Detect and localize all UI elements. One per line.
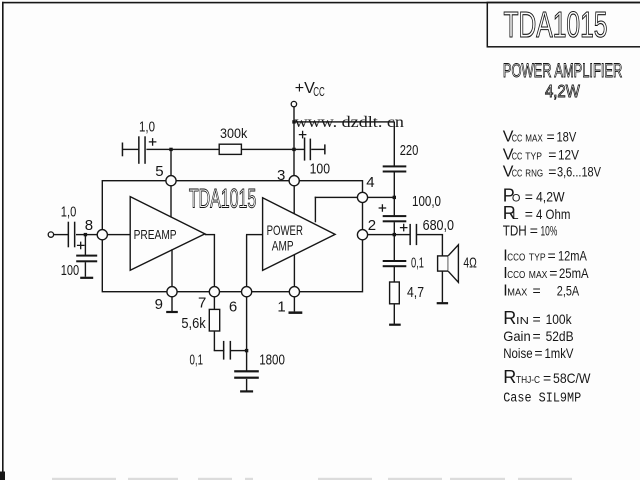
svg-text:CC: CC	[512, 132, 523, 144]
svg-text:4Ω: 4Ω	[463, 255, 477, 271]
svg-text:R: R	[503, 367, 516, 387]
wire feedback tap to pin4	[315, 197, 358, 198]
svg-text:4,7: 4,7	[407, 285, 424, 301]
wire input to C1	[54, 234, 68, 235]
wire R2 down	[214, 331, 215, 351]
svg-text:R: R	[503, 308, 516, 328]
wire to power amp input	[246, 234, 263, 235]
input terminal	[48, 232, 53, 237]
ground below R3	[389, 324, 401, 326]
svg-text:POWER: POWER	[267, 222, 303, 238]
svg-text:52dB: 52dB	[546, 328, 574, 344]
svg-text:MAX: MAX	[529, 269, 548, 281]
pin 4	[357, 192, 367, 202]
svg-text:POWER AMPLIFIER: POWER AMPLIFIER	[503, 61, 623, 82]
svg-text:=: =	[547, 128, 555, 144]
pin 7	[209, 287, 219, 297]
svg-text:4: 4	[366, 174, 374, 191]
svg-text:CCO: CCO	[507, 269, 525, 281]
svg-text:TDH: TDH	[503, 222, 527, 239]
svg-text:1,0: 1,0	[139, 120, 155, 136]
wire pin9 to ground	[171, 297, 172, 311]
svg-text:100: 100	[310, 162, 330, 178]
svg-text:=: =	[534, 345, 542, 361]
svg-text:=: =	[548, 146, 556, 162]
svg-text:TDA1015: TDA1015	[504, 4, 608, 45]
svg-text:58C/W: 58C/W	[553, 370, 591, 386]
wire C3 tick to C3	[122, 149, 138, 150]
svg-text:18V: 18V	[557, 128, 577, 144]
resistor R2 5,6k	[209, 309, 219, 331]
ground below pin1	[289, 311, 303, 314]
IC U1 TDA1015 body	[102, 181, 362, 292]
wire C3 to R1	[146, 149, 219, 150]
capacitor C1 1,0 input	[68, 222, 70, 248]
svg-text:CCO: CCO	[507, 252, 525, 264]
wire preamp output down to pin7	[214, 235, 215, 288]
wire Vcc rail to C4	[294, 149, 305, 150]
wire pin7 to R2	[214, 297, 215, 310]
wire node C to C6	[394, 197, 395, 215]
capacitor C8 0,1	[383, 260, 407, 262]
pin 6	[242, 287, 252, 297]
wire node A down to C2	[85, 235, 86, 255]
svg-text:TYP: TYP	[529, 252, 546, 264]
speaker LS1 box	[438, 256, 449, 271]
svg-text:100k: 100k	[546, 311, 573, 327]
wire pin3 down to power amp top edge	[294, 186, 295, 213]
plus mark C2	[77, 242, 85, 250]
svg-text:6: 6	[229, 299, 237, 316]
node Vcc rail junction	[292, 148, 295, 151]
wire node B down to pin5	[170, 149, 171, 176]
svg-text:IN: IN	[516, 315, 529, 327]
plus mark C3	[149, 138, 157, 146]
svg-text:=: =	[543, 370, 551, 386]
svg-text:=: =	[533, 328, 541, 344]
wire pin1 to ground	[294, 297, 295, 312]
wire node D to C7	[394, 234, 410, 235]
svg-text:12mA: 12mA	[558, 248, 587, 264]
svg-text:=: =	[530, 222, 538, 238]
svg-text:TYP: TYP	[525, 150, 542, 162]
plus mark C4	[299, 131, 307, 139]
svg-text:25mA: 25mA	[559, 265, 589, 281]
svg-text:220: 220	[400, 143, 419, 159]
node E junction	[245, 349, 248, 352]
svg-text:4,2W: 4,2W	[545, 82, 580, 101]
svg-text:3,6...18V: 3,6...18V	[557, 163, 602, 179]
svg-text:680,0: 680,0	[423, 218, 454, 234]
wire C1 to node A	[76, 234, 97, 235]
node B junction	[169, 148, 172, 151]
wire Vcc node to C5 (under watermark)	[294, 121, 395, 122]
svg-text:=: =	[525, 189, 533, 205]
svg-text:=: =	[525, 206, 533, 222]
svg-text:1: 1	[277, 299, 285, 316]
svg-text:=: =	[533, 311, 541, 327]
svg-text:THJ-C: THJ-C	[516, 374, 540, 386]
svg-text:4 Ohm: 4 Ohm	[536, 206, 570, 222]
wire pin6 up	[246, 235, 247, 288]
svg-text:4,2W: 4,2W	[536, 189, 565, 205]
capacitor C7 680,0	[409, 224, 411, 245]
wire C8 to R3	[394, 267, 395, 282]
svg-text:=: =	[533, 282, 541, 298]
wire down to speaker	[442, 235, 443, 257]
wire speaker to ground	[442, 271, 443, 302]
capacitor C9 0,1	[223, 341, 225, 360]
node Vcc watermark junction	[292, 120, 295, 123]
capacitor C10 1800	[234, 370, 259, 372]
svg-text:Gain: Gain	[503, 328, 531, 344]
svg-text:1,0: 1,0	[61, 204, 77, 220]
wire C2 to ground	[85, 262, 86, 277]
wire R1 to Vcc rail	[242, 149, 296, 150]
wire pin5 to preamp top edge	[170, 186, 171, 218]
node D junction	[393, 233, 396, 236]
op-amp preamp stage triangle	[130, 197, 205, 271]
svg-text:AMP: AMP	[272, 237, 294, 253]
resistor R3 4,7	[390, 282, 400, 304]
wire power amp bottom edge down to pin1	[294, 255, 295, 287]
svg-text:=: =	[548, 163, 556, 179]
speaker LS1 horn	[448, 245, 458, 282]
svg-text:1mkV: 1mkV	[545, 345, 575, 361]
svg-text:0,1: 0,1	[411, 256, 424, 272]
svg-text:7: 7	[198, 295, 206, 312]
node C junction	[393, 196, 396, 199]
pin 5	[166, 176, 176, 186]
svg-text:100,0: 100,0	[412, 194, 441, 210]
pin 8	[97, 230, 107, 240]
svg-text:MAX: MAX	[507, 286, 527, 298]
svg-text:L: L	[512, 210, 518, 222]
svg-text:=: =	[549, 265, 557, 281]
wire C10 to ground	[246, 379, 247, 391]
svg-text:CC: CC	[313, 85, 325, 99]
svg-text:0,1: 0,1	[190, 352, 204, 368]
svg-text:3: 3	[277, 167, 285, 184]
wire C7 to speaker corner	[417, 234, 443, 235]
capacitor C4 100 with end tick	[304, 138, 306, 161]
Vcc terminal	[291, 101, 296, 106]
wire C4 to end tick	[311, 149, 325, 150]
pin 9	[167, 287, 177, 297]
svg-text:5: 5	[155, 163, 163, 180]
op-amp power amp stage triangle	[263, 198, 336, 271]
capacitor C3 1,0 top with end tick	[122, 143, 124, 157]
svg-text:8: 8	[85, 217, 93, 234]
wire C5 to node C	[394, 122, 395, 166]
svg-text:TDA1015: TDA1015	[189, 183, 256, 213]
wire Vcc terminal down to pin3	[293, 107, 294, 176]
wire node D down to C8	[394, 235, 395, 260]
title block box	[487, 2, 640, 46]
svg-text:PREAMP: PREAMP	[134, 227, 177, 242]
wire feedback tap down	[315, 197, 316, 223]
pin 2	[357, 230, 367, 240]
svg-text:12V: 12V	[558, 146, 580, 162]
wire R2 corner to C9	[214, 350, 225, 351]
wire pin6 down to C10	[246, 297, 247, 371]
svg-text:CC: CC	[512, 150, 523, 162]
svg-text:RNG: RNG	[525, 167, 543, 179]
wire pin2 to node D	[367, 234, 394, 235]
svg-text:1800: 1800	[259, 352, 285, 368]
svg-text:300k: 300k	[220, 126, 248, 141]
svg-text:100: 100	[61, 263, 79, 279]
plus mark C6	[379, 204, 387, 212]
wire C6 to node D	[394, 222, 395, 235]
ground below C2	[80, 277, 93, 279]
svg-text:=: =	[548, 248, 556, 264]
capacitor C2 100	[76, 255, 97, 257]
svg-text:CC: CC	[512, 167, 523, 179]
wire preamp bottom edge to pin9	[171, 249, 172, 287]
svg-text:+V: +V	[295, 80, 315, 97]
capacitor C6 100,0	[383, 215, 407, 217]
node A junction	[84, 233, 87, 236]
wire C9 to node E	[231, 350, 247, 351]
wire R3 to ground	[394, 304, 395, 324]
svg-text:2,5A: 2,5A	[557, 282, 580, 298]
plus mark C7	[400, 224, 408, 232]
wire pin8 to preamp input	[107, 234, 130, 235]
svg-text:Noise: Noise	[503, 345, 533, 361]
ground below pin9	[166, 311, 178, 313]
pin 1	[289, 287, 299, 297]
wire pin4 to node C	[367, 197, 395, 198]
pin 3	[289, 176, 299, 186]
svg-text:Case SIL9MP: Case SIL9MP	[503, 392, 581, 407]
capacitor C5 220	[383, 165, 407, 167]
svg-text:2: 2	[368, 217, 376, 234]
wire 220 bottom to node C	[394, 172, 395, 197]
ground below C10	[240, 390, 253, 392]
svg-text:10%: 10%	[541, 222, 558, 238]
ground below speaker	[437, 302, 448, 304]
resistor R1 300k	[219, 144, 241, 154]
svg-text:9: 9	[155, 296, 163, 313]
svg-text:MAX: MAX	[525, 132, 543, 144]
wire preamp output	[205, 234, 215, 235]
svg-text:5,6k: 5,6k	[181, 316, 206, 332]
